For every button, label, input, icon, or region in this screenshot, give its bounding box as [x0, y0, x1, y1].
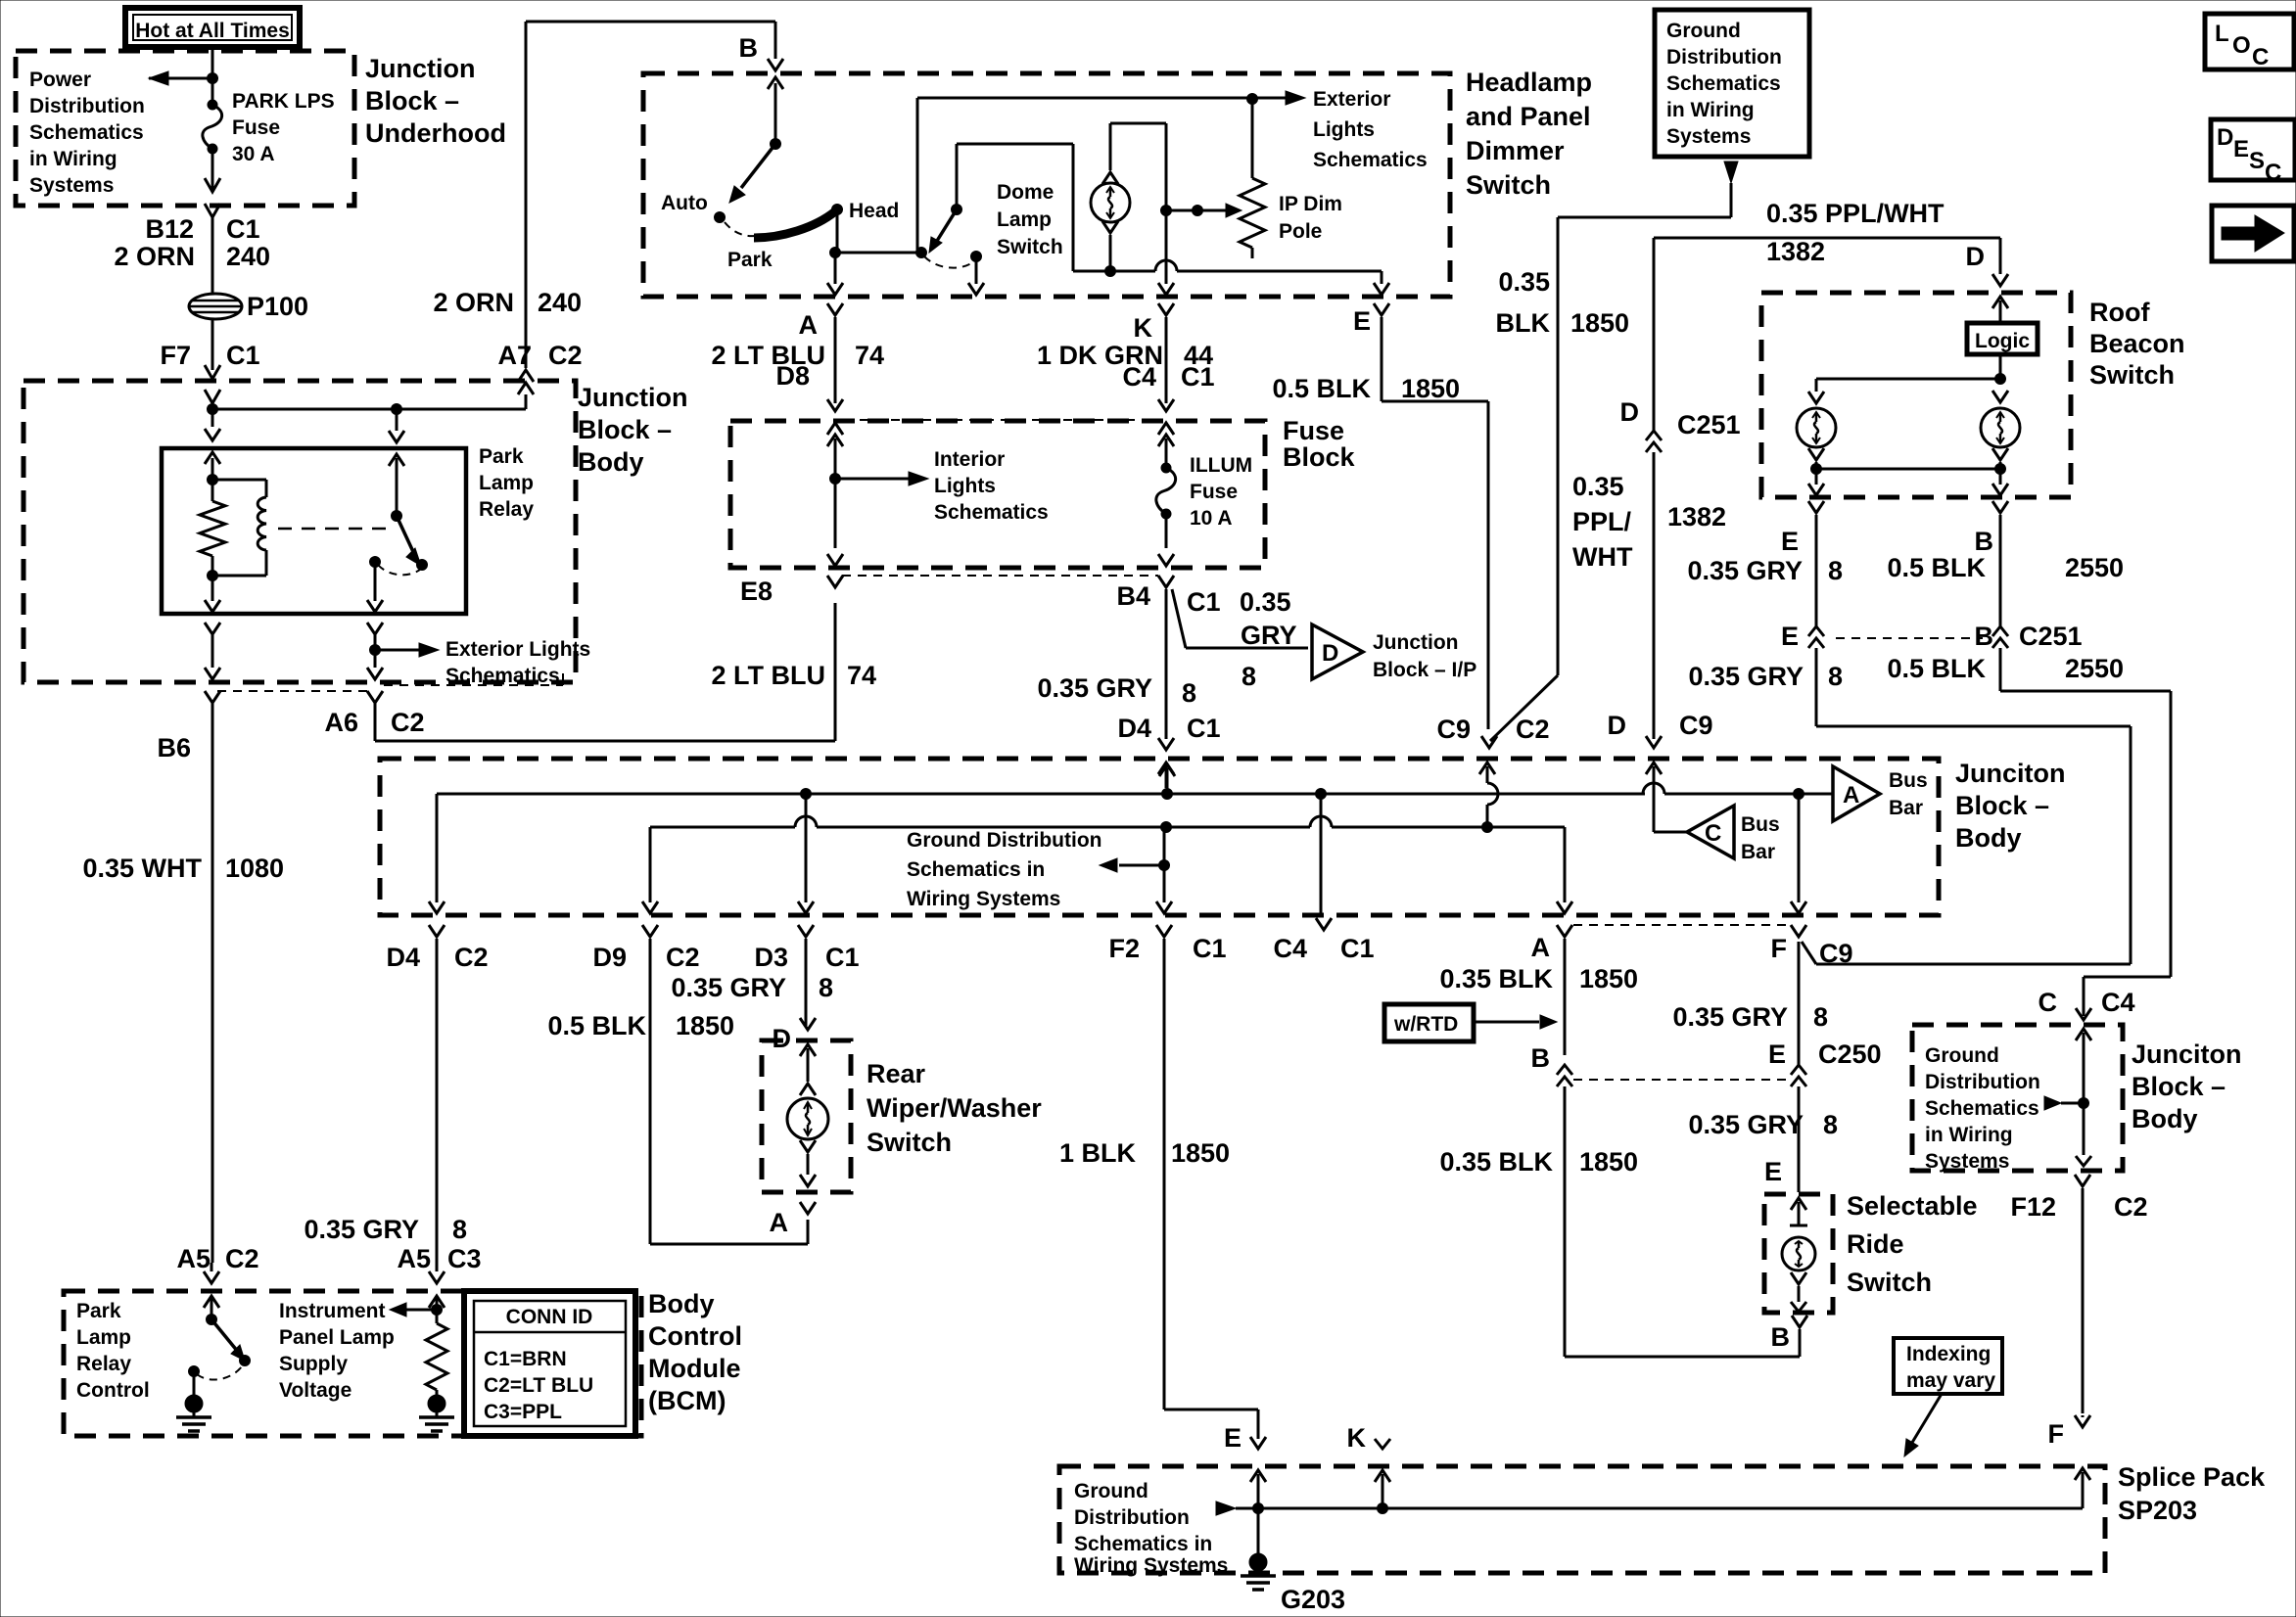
svg-text:D: D: [1620, 397, 1640, 427]
svg-text:C251: C251: [2019, 622, 2083, 651]
svg-text:74: 74: [855, 341, 884, 370]
connector D/C9 wire to bus bar C: [1608, 711, 1713, 832]
connector D4 / C2 with 0.35 GRY 8 to BCM: [304, 925, 488, 1261]
svg-text:Block – I/P: Block – I/P: [1373, 659, 1476, 681]
bus line 2 (circuit 1850): [650, 816, 1565, 833]
BCM instrument panel lamp supply voltage: [279, 1297, 443, 1402]
svg-text:Rear: Rear: [867, 1059, 926, 1088]
inline connector P100: [189, 292, 308, 321]
wire D9 drop: [642, 827, 658, 913]
headlamp switch output wire to A: [827, 253, 843, 295]
connector B6: [157, 668, 220, 762]
wire 0.35 BLK 1850 from ground distribution: [1490, 162, 1738, 741]
svg-text:C4: C4: [1273, 934, 1307, 963]
svg-text:E: E: [1224, 1423, 1242, 1453]
svg-text:Schematics: Schematics: [1925, 1097, 2039, 1120]
connector K with wire 1 DK GRN 44 to C4/C1: [1037, 303, 1215, 435]
beacon lamp bottom rail: [1808, 469, 2008, 495]
wire from Hot at All Times down with branch arrow: [149, 47, 218, 105]
svg-text:B4: B4: [1116, 581, 1150, 611]
svg-text:Control: Control: [648, 1321, 742, 1351]
svg-text:8: 8: [1182, 678, 1196, 708]
svg-text:Wiper/Washer: Wiper/Washer: [867, 1093, 1042, 1123]
svg-text:D4: D4: [386, 943, 420, 972]
svg-text:Block –: Block –: [2132, 1072, 2226, 1101]
connector C9/C2 wire into line2: [1436, 715, 1549, 827]
svg-text:8: 8: [1823, 1110, 1838, 1139]
svg-text:Dimmer: Dimmer: [1466, 136, 1565, 165]
svg-text:Lights: Lights: [934, 475, 996, 497]
svg-text:240: 240: [538, 288, 582, 317]
svg-text:Bar: Bar: [1889, 797, 1923, 819]
splice pack bus SP203: [1216, 1472, 2083, 1515]
svg-text:Schematics in: Schematics in: [1074, 1533, 1212, 1555]
wire F2 drop: [1156, 865, 1172, 913]
dashed box: Selectable Ride Switch: [1764, 1191, 1978, 1313]
svg-text:GRY: GRY: [1241, 621, 1297, 650]
svg-text:8: 8: [452, 1215, 467, 1244]
svg-text:Schematics: Schematics: [29, 121, 144, 144]
svg-text:C1: C1: [1181, 362, 1215, 392]
svg-text:C: C: [2252, 44, 2269, 70]
dashed box: Roof Beacon Switch: [1761, 293, 2185, 497]
svg-text:Auto: Auto: [661, 192, 708, 214]
relay resistor: [200, 480, 225, 576]
svg-text:1382: 1382: [1766, 237, 1825, 266]
ground G203: [1241, 1508, 1345, 1614]
svg-text:A7: A7: [497, 341, 532, 370]
svg-text:Wiring Systems: Wiring Systems: [1074, 1554, 1228, 1577]
dashed box: Power Distribution Schematics in Wiring Systems: [16, 51, 354, 206]
svg-text:C2: C2: [225, 1244, 259, 1273]
wire top run to headlamp switch B: [526, 22, 775, 59]
svg-text:Switch: Switch: [2089, 360, 2175, 390]
svg-text:Park: Park: [479, 445, 524, 468]
connector K of splice pack: [1347, 1423, 1391, 1508]
svg-text:Module: Module: [648, 1354, 741, 1383]
dimmer wiper arrow: [1166, 204, 1242, 217]
svg-text:E: E: [1353, 306, 1371, 336]
relay actuation dashed link: [278, 528, 390, 531]
dashed box: Rear Wiper/Washer Switch: [762, 1040, 1042, 1192]
connector B of beacon with 0.5 BLK 2550: [1836, 501, 2124, 691]
svg-text:Lamp: Lamp: [997, 208, 1052, 231]
svg-text:Fuse: Fuse: [232, 116, 280, 139]
svg-text:D: D: [1966, 242, 1986, 271]
relay coil: [208, 480, 267, 581]
relay switch: [370, 409, 428, 575]
connector B and inline C250 on BLK wire: [1439, 1043, 1800, 1357]
svg-text:Exterior Lights: Exterior Lights: [445, 638, 590, 661]
svg-text:C2: C2: [666, 943, 700, 972]
stub connector C4/C1 on line1: [1273, 794, 1374, 963]
svg-text:Ground: Ground: [1666, 20, 1741, 42]
relay switch output wire: [367, 562, 383, 668]
svg-text:1850: 1850: [1570, 308, 1629, 338]
connector B of selectable ride switch: [1771, 1316, 1808, 1357]
beacon lamp left: [1797, 354, 2006, 475]
svg-text:0.35: 0.35: [1572, 472, 1624, 501]
connector D4/C1 entry to bus line1: [1159, 764, 1175, 794]
dashed box: Junciton Block - Body (middle): [380, 759, 2066, 915]
selectable ride switch lamp: [1782, 1198, 1815, 1312]
svg-text:A5: A5: [176, 1244, 211, 1273]
svg-text:8: 8: [1813, 1002, 1828, 1032]
wire 0.35 PPL/WHT 1382 top run: [1654, 199, 2008, 286]
svg-text:Body: Body: [578, 447, 644, 477]
svg-text:in Wiring: in Wiring: [29, 148, 117, 170]
wire B6 0.35 WHT 1080: [82, 703, 284, 1263]
svg-text:Schematics: Schematics: [1313, 149, 1428, 171]
svg-text:Schematics in: Schematics in: [907, 858, 1045, 881]
svg-text:0.5 BLK: 0.5 BLK: [1887, 654, 1986, 683]
connector B of headlamp switch: [739, 33, 784, 150]
connector F of splice pack: [2048, 1415, 2091, 1480]
svg-text:0.5 BLK: 0.5 BLK: [547, 1011, 646, 1040]
svg-text:WHT: WHT: [1572, 542, 1633, 572]
svg-text:C1: C1: [825, 943, 860, 972]
svg-text:D4: D4: [1117, 714, 1151, 743]
svg-text:0.35 BLK: 0.35 BLK: [1439, 964, 1553, 993]
svg-text:Ride: Ride: [1847, 1229, 1904, 1259]
svg-text:C1: C1: [1340, 934, 1375, 963]
svg-text:Logic: Logic: [1975, 330, 2030, 352]
svg-text:1850: 1850: [1401, 374, 1460, 403]
svg-text:2 ORN: 2 ORN: [433, 288, 514, 317]
svg-text:C1: C1: [226, 341, 260, 370]
svg-text:8: 8: [819, 973, 833, 1002]
svg-text:C1=BRN: C1=BRN: [484, 1348, 567, 1370]
connector B4 / C1: [1116, 554, 1220, 617]
wire D4 drop: [429, 794, 445, 913]
svg-text:2550: 2550: [2065, 654, 2124, 683]
svg-text:1382: 1382: [1667, 502, 1726, 531]
svg-text:C9: C9: [1819, 939, 1853, 968]
svg-text:IP Dim: IP Dim: [1279, 193, 1342, 215]
svg-text:30 A: 30 A: [232, 143, 275, 165]
label: Junction Block - Underhood: [365, 54, 506, 148]
connector F / C9 with 0.35 GRY 8: [1672, 925, 1852, 1032]
svg-text:Body: Body: [2132, 1104, 2198, 1133]
svg-text:C1: C1: [226, 214, 260, 244]
dimmer bottom rail to E: [1073, 260, 1389, 295]
svg-text:2550: 2550: [2065, 553, 2124, 582]
svg-text:Dome: Dome: [997, 181, 1054, 204]
svg-text:G203: G203: [1281, 1585, 1345, 1614]
connector E8 with wire 2 LT BLU 74: [712, 554, 1159, 690]
svg-text:0.35: 0.35: [1240, 587, 1291, 617]
svg-text:C: C: [2038, 988, 2058, 1017]
wire 0.5 BLK 2550 second label: [1887, 654, 2124, 683]
svg-text:A6: A6: [324, 708, 358, 737]
wire A7 riser with connector A7 / C2 and label 2 ORN 240: [433, 22, 582, 409]
svg-text:Ground: Ground: [1074, 1480, 1148, 1502]
connector E / C250 on GRY wire: [1688, 942, 1881, 1192]
svg-text:Splice Pack: Splice Pack: [2118, 1462, 2266, 1492]
svg-text:Lights: Lights: [1313, 118, 1375, 141]
svg-text:B: B: [1975, 622, 1994, 651]
dome lamp switch output wire: [968, 256, 984, 295]
svg-text:A: A: [799, 310, 819, 340]
svg-text:C251: C251: [1677, 410, 1741, 439]
svg-text:Exterior: Exterior: [1313, 88, 1390, 111]
svg-text:D8: D8: [775, 361, 810, 391]
svg-text:1850: 1850: [1579, 964, 1638, 993]
solid box: Ground Distribution Schematics in Wiring Systems: [1655, 10, 1809, 157]
svg-text:w/RTD: w/RTD: [1393, 1013, 1458, 1036]
fuse ILLUM 10 A: [1156, 435, 1252, 548]
svg-text:Distribution: Distribution: [1074, 1506, 1190, 1529]
svg-text:B6: B6: [157, 733, 191, 762]
svg-text:D: D: [2217, 124, 2233, 151]
wire 0.35 GRY 8 second label: [1688, 662, 1843, 691]
wire A6 to E8 link: [375, 603, 835, 741]
logic module box: [1967, 297, 2038, 354]
svg-text:Lamp: Lamp: [76, 1326, 131, 1349]
BCM park lamp relay control switch: [76, 1297, 251, 1402]
svg-text:E: E: [1781, 622, 1799, 651]
svg-text:E: E: [2233, 136, 2249, 162]
connector A of rear wiper switch: [770, 1202, 817, 1237]
svg-text:0.35: 0.35: [1498, 267, 1550, 297]
svg-text:Bar: Bar: [1741, 841, 1775, 863]
svg-text:E8: E8: [740, 577, 773, 606]
svg-text:K: K: [1134, 313, 1153, 343]
dashed box: Ground Distribution Schematics in Wiring Systems (body): [1912, 1025, 2123, 1173]
legend box DESC: [2211, 119, 2295, 186]
dashed box: Body Control Module (BCM): [64, 1289, 742, 1436]
note box Indexing may vary with arrow: [1894, 1338, 2002, 1456]
svg-text:Junciton: Junciton: [1955, 759, 2066, 788]
svg-text:PPL/: PPL/: [1572, 507, 1632, 536]
svg-text:1850: 1850: [1579, 1147, 1638, 1177]
svg-text:B: B: [1771, 1322, 1791, 1352]
wire B4 to D4 0.35 GRY 8: [1037, 589, 1220, 788]
svg-text:C9: C9: [1679, 711, 1713, 740]
svg-text:240: 240: [226, 242, 270, 271]
rear wiper switch lamp: [787, 1044, 828, 1186]
svg-text:0.35 WHT: 0.35 WHT: [82, 854, 202, 883]
wire inside ground distribution body box: [2044, 1029, 2091, 1166]
svg-text:C250: C250: [1818, 1039, 1882, 1069]
svg-text:Schematics: Schematics: [1666, 72, 1781, 95]
svg-text:Distribution: Distribution: [29, 95, 145, 117]
ground distribution reference arrow (middle box): [907, 827, 1170, 910]
connector E with wire 0.5 BLK 1850: [1272, 303, 1488, 729]
svg-text:Roof: Roof: [2089, 298, 2150, 327]
svg-text:A5: A5: [397, 1244, 431, 1273]
svg-text:Power: Power: [29, 69, 91, 91]
branch to Junction Block - I/P with triangle D: [1172, 587, 1476, 691]
headlamp switch Auto contact: [661, 144, 775, 223]
wire D3 drop: [798, 794, 814, 913]
dashed box: Junction Block - Body: [23, 381, 688, 682]
svg-text:8: 8: [1242, 662, 1256, 691]
svg-text:Relay: Relay: [479, 498, 534, 521]
beacon lamp right: [1981, 391, 2020, 475]
connector F12 / C2: [2010, 1175, 2147, 1413]
svg-text:Hot at All Times: Hot at All Times: [135, 20, 290, 42]
wire fuse to connector B12: [205, 149, 220, 294]
svg-text:Body: Body: [1955, 823, 2022, 853]
fuse PARK LPS 30 A: [203, 90, 335, 165]
svg-text:8: 8: [1828, 556, 1843, 585]
svg-text:Underhood: Underhood: [365, 118, 506, 148]
svg-text:and Panel: and Panel: [1466, 102, 1591, 131]
svg-text:C4: C4: [1122, 362, 1156, 392]
svg-text:0.35 GRY: 0.35 GRY: [671, 973, 786, 1002]
svg-text:Fuse: Fuse: [1283, 416, 1344, 445]
svg-text:Instrument: Instrument: [279, 1300, 386, 1322]
svg-text:Control: Control: [76, 1379, 150, 1402]
svg-text:BLK: BLK: [1496, 308, 1551, 338]
svg-text:Wiring Systems: Wiring Systems: [907, 888, 1060, 910]
dome switch top rail: [957, 144, 1073, 271]
svg-text:Relay: Relay: [76, 1353, 131, 1375]
resistor IP Dim Pole: [1240, 99, 1342, 258]
relay coil output wire: [205, 576, 220, 668]
svg-text:Fuse: Fuse: [1190, 481, 1238, 503]
connector C / C4: [2038, 988, 2135, 1020]
BCM switch ground: [176, 1371, 211, 1431]
wire from Head contact up over: [830, 94, 1258, 258]
dashed box: Fuse Block: [730, 416, 1356, 568]
svg-text:0.5 BLK: 0.5 BLK: [1272, 374, 1371, 403]
svg-text:0.35 GRY: 0.35 GRY: [304, 1215, 419, 1244]
svg-text:C: C: [2265, 160, 2281, 186]
svg-text:Park: Park: [727, 249, 773, 271]
svg-text:C3=PPL: C3=PPL: [484, 1401, 562, 1423]
svg-text:74: 74: [847, 661, 876, 690]
dashed box: Splice Pack SP203: [1059, 1462, 2266, 1573]
svg-text:Pole: Pole: [1279, 220, 1322, 243]
wire A drop: [1557, 827, 1572, 913]
headlamp switch lever Park-Head: [725, 200, 899, 271]
svg-text:Park: Park: [76, 1300, 121, 1322]
svg-text:Beacon: Beacon: [2089, 329, 2185, 358]
dome lamp switch: [916, 144, 1063, 268]
svg-text:Junction: Junction: [365, 54, 476, 83]
connector A with wire 2 LT BLU 74 to D8: [712, 303, 1159, 435]
connector E of splice pack: [1224, 1423, 1266, 1508]
svg-text:C3: C3: [447, 1244, 482, 1273]
label: Junciton Block - Body (bottom right): [2132, 1039, 2242, 1133]
text: Ground Distribution Schematics in Wiring Systems (splice pack): [1074, 1480, 1228, 1577]
connector pins B12 / C1: [145, 214, 259, 244]
arrow to Exterior Lights Schematics (headlamp feed): [1252, 88, 1428, 171]
dashed box: Headlamp and Panel Dimmer Switch: [643, 68, 1592, 297]
svg-text:Selectable: Selectable: [1847, 1191, 1978, 1221]
svg-text:ILLUM: ILLUM: [1190, 454, 1252, 477]
svg-text:C: C: [1705, 820, 1721, 847]
bus line 1 (circuit 8): [437, 783, 1804, 800]
svg-text:Schematics: Schematics: [934, 501, 1049, 524]
connector pins F7 / C1: [160, 319, 259, 403]
svg-text:Headlamp: Headlamp: [1466, 68, 1592, 97]
svg-text:(BCM): (BCM): [648, 1386, 726, 1415]
svg-text:C2: C2: [391, 708, 425, 737]
legend box arrow: [2212, 206, 2294, 261]
svg-text:E: E: [1781, 527, 1799, 556]
connector D9 / C2 with 0.5 BLK 1850 to wiper A: [547, 925, 808, 1244]
svg-text:B: B: [1531, 1043, 1551, 1073]
svg-text:Block –: Block –: [578, 415, 672, 444]
wire F drop: [1791, 794, 1806, 913]
svg-text:Switch: Switch: [997, 236, 1063, 258]
svg-text:0.35 GRY: 0.35 GRY: [1672, 1002, 1788, 1032]
svg-text:F: F: [1771, 934, 1788, 963]
wire 0.35 PPL/WHT 1382 riser to D/C9: [1572, 238, 1741, 739]
node bus inside JB-Body y=418: [208, 403, 527, 415]
svg-text:C9: C9: [1436, 715, 1471, 744]
svg-text:0.35 GRY: 0.35 GRY: [1688, 662, 1804, 691]
svg-text:C2=LT BLU: C2=LT BLU: [484, 1374, 593, 1397]
svg-text:C1: C1: [1193, 934, 1227, 963]
svg-text:Switch: Switch: [1847, 1268, 1932, 1297]
svg-text:0.5 BLK: 0.5 BLK: [1887, 553, 1986, 582]
svg-text:C2: C2: [548, 341, 583, 370]
svg-text:0.35 GRY: 0.35 GRY: [1688, 1110, 1804, 1139]
svg-text:Bus: Bus: [1889, 769, 1928, 792]
beacon E wire route to F/C9: [1802, 726, 2131, 964]
CONN ID table: [464, 1291, 635, 1436]
bus bar C triangle: [1687, 806, 1780, 863]
svg-text:in Wiring: in Wiring: [1925, 1124, 2013, 1146]
lamp top rail and K riser: [1110, 123, 1172, 260]
bus bar A triangle: [1799, 766, 1928, 821]
svg-text:10 A: 10 A: [1190, 507, 1233, 530]
svg-text:2 LT BLU: 2 LT BLU: [712, 661, 826, 690]
svg-text:0.35 PPL/WHT: 0.35 PPL/WHT: [1766, 199, 1945, 228]
wire label 2 ORN 240: [114, 242, 270, 271]
svg-text:Indexing: Indexing: [1906, 1343, 1991, 1365]
svg-text:F: F: [2048, 1419, 2065, 1449]
connector D3 / C1 with 0.35 GRY 8 to rear wiper D: [671, 925, 859, 1053]
svg-text:PARK LPS: PARK LPS: [232, 90, 335, 113]
svg-text:in Wiring: in Wiring: [1666, 99, 1755, 121]
note box w/RTD with arrow: [1384, 1004, 1557, 1041]
svg-text:D9: D9: [592, 943, 627, 972]
arrow to Interior Lights Schematics: [827, 435, 1049, 548]
svg-text:0.35 GRY: 0.35 GRY: [1037, 673, 1152, 703]
svg-text:Junction: Junction: [1373, 631, 1459, 654]
svg-text:Systems: Systems: [1666, 125, 1751, 148]
svg-text:Switch: Switch: [1466, 170, 1551, 200]
svg-text:C2: C2: [1516, 715, 1550, 744]
svg-text:Block –: Block –: [1955, 791, 2049, 820]
svg-text:Ground Distribution: Ground Distribution: [907, 829, 1101, 852]
svg-text:Block –: Block –: [365, 86, 459, 115]
svg-text:0.35 BLK: 0.35 BLK: [1439, 1147, 1553, 1177]
svg-text:E: E: [1764, 1157, 1782, 1186]
legend box LOC: [2205, 14, 2294, 70]
svg-text:1850: 1850: [1171, 1138, 1230, 1168]
svg-text:K: K: [1347, 1423, 1367, 1453]
svg-text:B: B: [739, 33, 759, 63]
svg-text:1 BLK: 1 BLK: [1059, 1138, 1137, 1168]
svg-text:Block: Block: [1283, 442, 1356, 472]
svg-text:1850: 1850: [676, 1011, 734, 1040]
svg-text:Systems: Systems: [1925, 1150, 2009, 1173]
relay K1 park lamp relay box: [162, 445, 534, 614]
svg-text:0.35 GRY: 0.35 GRY: [1687, 556, 1803, 585]
svg-text:Bus: Bus: [1741, 813, 1780, 836]
connector E of beacon with 0.35 GRY 8: [1687, 501, 1843, 726]
BCM resistor ground: [419, 1395, 454, 1431]
K wire lower segment: [1158, 260, 1174, 295]
svg-text:P100: P100: [247, 292, 308, 321]
beacon B wire route to C/C4: [2000, 691, 2171, 1016]
